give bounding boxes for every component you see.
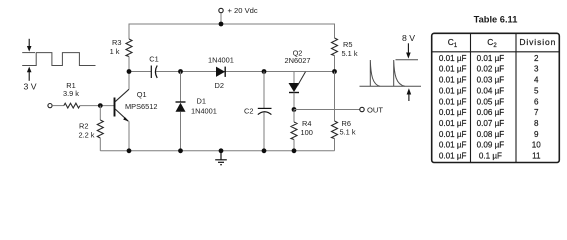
svg-text:11: 11 — [532, 152, 541, 161]
svg-text:3: 3 — [534, 65, 539, 74]
wire Q1 emitter down — [128, 121, 130, 151]
table header line — [431, 51, 560, 53]
mid rail wire segments — [129, 71, 151, 73]
output waveform symbol — [360, 60, 422, 87]
capacitor C1 — [151, 66, 157, 79]
svg-text:0.02 µF: 0.02 µF — [477, 65, 505, 74]
wire R3 to mid rail — [128, 57, 130, 72]
svg-text:0.06 µF: 0.06 µF — [477, 108, 505, 117]
svg-text:2.2 k: 2.2 k — [78, 130, 94, 139]
wire input to R1 — [52, 105, 64, 107]
svg-text:7: 7 — [534, 108, 539, 117]
diode D2 — [216, 67, 225, 77]
diode D1 — [176, 102, 186, 112]
svg-text:0.09 µF: 0.09 µF — [477, 141, 505, 150]
wire R6 to bottom rail — [334, 139, 336, 151]
wire R2 to bottom rail — [99, 138, 101, 151]
svg-text:5.1 k: 5.1 k — [340, 127, 356, 136]
svg-text:0.04 µF: 0.04 µF — [477, 86, 505, 95]
node R4 rail dot — [292, 148, 297, 153]
svg-text:8: 8 — [534, 119, 539, 128]
table outer border — [432, 33, 560, 162]
svg-text:0.08 µF: 0.08 µF — [477, 130, 505, 139]
svg-text:D2: D2 — [215, 81, 224, 90]
svg-text:1N4001: 1N4001 — [208, 56, 234, 65]
wire C2 bottom — [263, 112, 265, 151]
svg-text:0.01 µF: 0.01 µF — [439, 86, 467, 95]
svg-text:0.03 µF: 0.03 µF — [477, 76, 505, 85]
ground — [215, 151, 227, 165]
wire R5 to gate node — [334, 56, 336, 72]
table rows — [439, 54, 541, 161]
node collector junction dot — [127, 69, 132, 74]
node ground rail dot — [219, 148, 224, 153]
svg-text:Table 6.11: Table 6.11 — [474, 15, 518, 25]
svg-text:5: 5 — [534, 86, 539, 95]
svg-text:+ 20 Vdc: + 20 Vdc — [228, 6, 258, 15]
svg-text:Q1: Q1 — [137, 90, 147, 99]
node C2 rail dot — [262, 148, 267, 153]
svg-text:R3: R3 — [112, 38, 121, 47]
PUT Q2 — [289, 72, 306, 110]
svg-text:6: 6 — [534, 97, 539, 106]
wire D1 top — [180, 72, 182, 103]
svg-text:0.01 µF: 0.01 µF — [439, 65, 467, 74]
svg-text:OUT: OUT — [367, 105, 383, 114]
svg-text:10: 10 — [532, 141, 542, 150]
svg-text:0.01 µF: 0.01 µF — [439, 119, 467, 128]
svg-text:4: 4 — [534, 76, 539, 85]
svg-text:1N4001: 1N4001 — [191, 107, 217, 116]
node gate junction dot — [332, 69, 337, 74]
svg-text:0.01 µF: 0.01 µF — [439, 152, 467, 161]
svg-text:8 V: 8 V — [402, 33, 415, 43]
wire C2 top — [263, 72, 265, 109]
wire D1 bottom — [180, 112, 182, 151]
svg-text:MPS6512: MPS6512 — [125, 102, 157, 111]
svg-text:R2: R2 — [79, 121, 88, 130]
resistor R5 — [332, 38, 338, 56]
wire R1 to base node — [80, 105, 114, 107]
bottom rail — [100, 150, 334, 152]
wire cathode to OUT — [294, 109, 360, 111]
svg-text:0.01 µF: 0.01 µF — [477, 54, 505, 63]
svg-text:0.01 µF: 0.01 µF — [439, 76, 467, 85]
svg-text:C1: C1 — [149, 55, 158, 64]
svg-text:3.9 k: 3.9 k — [63, 89, 79, 98]
+20 Vdc terminal — [219, 8, 223, 12]
node D1 junction dot — [178, 69, 183, 74]
svg-text:0.01 µF: 0.01 µF — [439, 54, 467, 63]
table column line 2 — [515, 33, 517, 163]
svg-text:0.07 µF: 0.07 µF — [477, 119, 505, 128]
resistor R3 — [126, 39, 132, 57]
svg-text:1 k: 1 k — [110, 47, 120, 56]
svg-text:100: 100 — [301, 128, 313, 137]
transistor Q1 — [115, 89, 130, 121]
input 3V up-arrow — [27, 67, 32, 81]
wire +20Vdc stub — [220, 13, 222, 24]
wire R4 to rail — [293, 140, 295, 151]
table column line 1 — [470, 33, 472, 163]
output 8V up-arrow — [407, 88, 412, 101]
output 8V down-arrow — [406, 43, 411, 58]
svg-text:0.1 µF: 0.1 µF — [479, 152, 502, 161]
resistor R1 — [64, 103, 80, 108]
capacitor C2 — [258, 108, 272, 114]
wire cathode to R4 — [293, 110, 295, 123]
svg-text:0.01 µF: 0.01 µF — [439, 97, 467, 106]
svg-text:5.1 k: 5.1 k — [342, 49, 358, 58]
svg-text:0.01 µF: 0.01 µF — [439, 141, 467, 150]
node emitter rail dot — [127, 148, 132, 153]
svg-text:2N6027: 2N6027 — [285, 56, 311, 65]
resistor R4 — [291, 122, 297, 140]
svg-text:Division: Division — [519, 37, 556, 47]
wire gate node down to R6 — [334, 72, 336, 122]
svg-text:C1: C1 — [448, 37, 458, 49]
resistor R6 — [332, 121, 338, 139]
svg-text:D1: D1 — [197, 97, 206, 106]
svg-text:R4: R4 — [302, 119, 311, 128]
wire node to R2 — [99, 106, 101, 120]
node base junction dot — [98, 103, 103, 108]
svg-text:C2: C2 — [244, 107, 253, 116]
node D1 rail dot — [178, 148, 183, 153]
node top rail dot — [219, 22, 224, 27]
svg-text:0.01 µF: 0.01 µF — [439, 108, 467, 117]
svg-text:9: 9 — [534, 130, 539, 139]
node Q2 cathode dot — [292, 107, 297, 112]
wire Q1 collector up — [128, 72, 130, 90]
svg-text:2: 2 — [534, 54, 539, 63]
top rail — [129, 24, 335, 39]
input square-wave symbol — [22, 53, 95, 66]
input terminal circle — [48, 104, 52, 108]
OUT terminal — [360, 107, 364, 111]
svg-text:3 V: 3 V — [23, 82, 36, 92]
svg-text:0.05 µF: 0.05 µF — [477, 97, 505, 106]
node C2 junction dot — [262, 69, 267, 74]
resistor R2 — [97, 120, 103, 138]
svg-text:0.01 µF: 0.01 µF — [439, 130, 467, 139]
svg-text:R5: R5 — [343, 40, 352, 49]
svg-text:C2: C2 — [487, 37, 497, 49]
input 3V down-arrow — [27, 39, 32, 52]
